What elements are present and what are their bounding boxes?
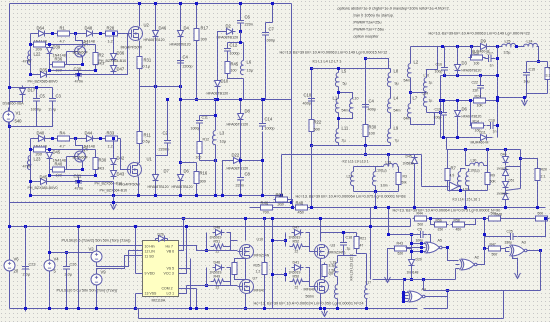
node cell2 i [94, 174, 97, 177]
wire R59 right [503, 218, 534, 220]
capacitor C16r [487, 122, 498, 129]
wire L30 left [466, 150, 470, 166]
wire x388 drop [388, 155, 390, 167]
wire V4 top [49, 219, 51, 257]
wire A3 in1 [506, 247, 510, 249]
svg-text:D47: D47 [293, 226, 300, 230]
svg-text:V4: V4 [54, 257, 60, 262]
node rail75 b [456, 74, 459, 77]
wire C17 right [496, 58, 498, 60]
svg-text:7µ: 7µ [342, 139, 346, 143]
resistor R43 [393, 246, 409, 251]
svg-text:100: 100 [474, 62, 480, 66]
wire R31 down [139, 69, 141, 87]
node rail86 [154, 85, 157, 88]
svg-text:C17: C17 [487, 52, 493, 56]
wire out top rail2 [490, 46, 503, 48]
wire D2 left drop [218, 32, 224, 78]
wire C25 left [485, 236, 507, 238]
wire ic top link [155, 239, 157, 241]
node C23 bus [24, 307, 27, 310]
svg-text:300: 300 [200, 180, 206, 184]
resistor R9 [485, 171, 490, 187]
node cell2 e [81, 168, 84, 171]
node cell1 f [48, 43, 51, 46]
wire A3 frame bottom [504, 290, 541, 292]
wire COM drop [196, 289, 198, 309]
wire D22 right [243, 132, 263, 161]
svg-text:0.5µ: 0.5µ [143, 140, 151, 144]
svg-text:VCC 3: VCC 3 [164, 272, 174, 276]
capacitor C8 [237, 174, 244, 185]
svg-text:R19: R19 [473, 52, 479, 56]
wire x404 to A4 [403, 280, 405, 302]
wire x272b [272, 219, 274, 309]
node A4 j3 [402, 297, 405, 300]
wire y154 [282, 154, 422, 156]
svg-text:R21: R21 [360, 237, 367, 241]
wire cell1 bot3 [114, 34, 128, 75]
svg-text:R46: R46 [261, 201, 269, 206]
capacitor C21 [75, 177, 82, 188]
svg-text:D45: D45 [53, 150, 61, 155]
node hb2 g2 [284, 273, 287, 276]
svg-text:D40: D40 [37, 131, 45, 136]
svg-text:R7: R7 [451, 166, 457, 171]
wire buf feed [422, 186, 449, 188]
wire L10 taps [339, 93, 353, 99]
wire K2 drop [375, 192, 377, 208]
resistor R31 [137, 55, 142, 71]
node hb1 g1 [205, 249, 208, 252]
svg-text:450: 450 [298, 211, 304, 215]
svg-text:R30: R30 [99, 158, 107, 163]
svg-text:D43: D43 [117, 172, 125, 177]
wire C18 bot [343, 249, 345, 256]
wire L2s-L7s [410, 78, 412, 104]
svg-text:11 SD: 11 SD [145, 255, 155, 259]
wire input top [10, 87, 53, 89]
wire L1-L11 link [338, 113, 340, 129]
diode D46z [38, 179, 50, 185]
node col155 top [154, 2, 157, 5]
resistor R25 [262, 261, 267, 277]
wire R19 right [485, 57, 486, 59]
svg-text:300: 300 [278, 203, 284, 207]
svg-text:VB 6: VB 6 [167, 250, 175, 254]
node R20 bus [536, 206, 539, 209]
node cell2 f [48, 148, 51, 151]
node bus202 end [290, 201, 293, 204]
svg-text:300: 300 [201, 38, 207, 42]
svg-text:D9: D9 [481, 39, 487, 44]
wire K4 mid [338, 255, 357, 257]
svg-text:R3: R3 [403, 175, 407, 179]
svg-text:C12: C12 [230, 43, 238, 48]
wire bus return [10, 202, 292, 204]
svg-text:R51: R51 [214, 240, 221, 244]
wire K2 bot [354, 191, 399, 193]
wire C16r right [497, 125, 499, 127]
svg-text:1µ: 1µ [347, 247, 351, 251]
wire A4 in2 [404, 295, 409, 297]
node com [195, 307, 198, 310]
svg-text:U7: U7 [253, 277, 258, 281]
svg-text:D11: D11 [480, 131, 486, 135]
wire x311 down [311, 146, 313, 208]
svg-text:R58: R58 [454, 219, 460, 223]
wire A4 in4 [404, 301, 409, 303]
svg-text:1N4148: 1N4148 [407, 271, 419, 275]
node x370 a [369, 225, 372, 228]
diode D48 [84, 31, 96, 37]
node x411 b [410, 233, 413, 236]
wire C19 bot [443, 119, 445, 138]
svg-text:R17: R17 [201, 26, 209, 31]
svg-text:C3: C3 [56, 94, 62, 99]
svg-text:500: 500 [492, 253, 498, 257]
wire y252 [50, 252, 97, 254]
node x447 [446, 289, 449, 292]
node col196 top [195, 2, 198, 5]
wire pin Hin [136, 245, 143, 247]
node k3 d [504, 148, 507, 151]
node gnd tap [112, 201, 115, 204]
wire D45r v [414, 167, 416, 208]
node x78 c [77, 307, 80, 310]
wire cell1 left [30, 34, 32, 75]
node out gnd [523, 96, 526, 99]
inductor L29 [384, 163, 398, 166]
node R25 bot [263, 307, 266, 310]
node gnd hb2 [323, 307, 326, 310]
svg-text:L23: L23 [34, 157, 42, 162]
wire cell1 top rail [31, 33, 128, 35]
node snub [239, 41, 242, 44]
wire ic top link2 [167, 239, 169, 241]
node D8 top [239, 98, 242, 101]
node VDD bus [134, 225, 137, 228]
wire rail100b [488, 100, 498, 102]
svg-text:470n: 470n [75, 80, 83, 84]
node C6 top [239, 2, 242, 5]
wire D39 to R36 [50, 57, 51, 65]
svg-text:2.1: 2.1 [541, 175, 546, 179]
wire A2 out [479, 249, 485, 265]
wire R7 bot [447, 181, 449, 191]
svg-text:HFA06TB120: HFA06TB120 [227, 123, 249, 127]
diode D40s [503, 154, 509, 166]
wire hb2 gates feed2 [273, 274, 286, 276]
svg-text:R30: R30 [369, 125, 377, 130]
svg-text:100p: 100p [434, 116, 442, 120]
wire pin SD [136, 255, 143, 257]
node D45r bus [413, 206, 416, 209]
svg-text:R14: R14 [473, 120, 479, 124]
svg-text:1µ: 1µ [429, 81, 433, 85]
svg-text:R1: R1 [60, 26, 66, 31]
diode D47z [111, 63, 117, 75]
svg-text:IRF640: IRF640 [254, 289, 265, 293]
svg-text:L1: L1 [333, 96, 338, 101]
wire R16 branch [181, 162, 197, 164]
svg-text:L2: L2 [414, 60, 419, 65]
node L tap [337, 91, 340, 94]
svg-text:L7: L7 [413, 96, 418, 101]
capacitor C3 [49, 95, 56, 106]
wire Q4 emitter [82, 59, 84, 65]
wire R21 ext [357, 250, 367, 254]
inductor L10s [423, 78, 426, 92]
wire V4 bot [49, 275, 51, 309]
wire C7 stub [266, 22, 273, 24]
node hb1 g2 [205, 284, 208, 287]
node K3 rail190 a [459, 189, 462, 192]
node hb1 top [244, 217, 247, 220]
wire L30 right [484, 165, 488, 167]
wire out top rail [411, 46, 478, 48]
wire A3 frame drop [503, 291, 505, 319]
wire R9 top [487, 150, 489, 173]
svg-text:54m: 54m [404, 79, 411, 83]
wire y112 [427, 112, 441, 114]
node bus307 b [205, 307, 208, 310]
wire C26 top [66, 253, 68, 263]
node rail99 d [195, 98, 198, 101]
svg-text:K1 L1 L4 L2 L7 1: K1 L1 L4 L2 L7 1 [313, 60, 342, 64]
node col180 bus [179, 194, 182, 197]
node L tap2 [337, 117, 340, 120]
svg-text:U10: U10 [257, 238, 264, 242]
node x484 a [483, 233, 486, 236]
node x78 a [77, 225, 80, 228]
wire VDD drop [135, 227, 137, 274]
svg-text:.PWM# Tzn=7.56u: .PWM# Tzn=7.56u [353, 28, 384, 32]
svg-text:C23: C23 [29, 263, 36, 267]
svg-text:C7: C7 [269, 27, 275, 32]
wire L6 top [243, 43, 245, 61]
wire R21k top [356, 233, 358, 237]
diode D35 [38, 72, 50, 78]
svg-text:100p: 100p [416, 239, 424, 243]
transistor U10 [238, 245, 254, 259]
node L17 bus [365, 307, 368, 310]
wire zener mid [113, 62, 115, 64]
svg-text:.tran 0 1050u 0u startup.: .tran 0 1050u 0u startup. [353, 14, 394, 18]
wire C12-R45 [227, 55, 229, 62]
wire C22 top [480, 76, 482, 82]
svg-text:L8: L8 [394, 69, 399, 74]
wire pin VB [179, 219, 184, 251]
svg-text:C8: C8 [245, 172, 251, 177]
node U1 bus [137, 194, 140, 197]
node V4 bus [48, 307, 51, 310]
svg-text:22: 22 [295, 250, 299, 254]
wire Q4 base [67, 51, 74, 53]
wire D6r top [457, 101, 459, 108]
diode D11 [478, 135, 490, 141]
node V1 bottom [8, 125, 11, 128]
svg-text:20: 20 [14, 269, 19, 274]
resistor R22 [309, 118, 314, 134]
wire V9 bot [96, 289, 98, 309]
node D2 right [239, 30, 242, 33]
inductor L4 [387, 99, 390, 113]
svg-text:D8: D8 [245, 109, 251, 114]
wire top rail drop at x291 [291, 4, 293, 203]
node A5 out [446, 246, 449, 249]
svg-text:U3: U3 [331, 244, 336, 248]
wire R56 jog [431, 219, 433, 225]
wire L19-L23 [337, 277, 339, 285]
node y252 a [48, 251, 51, 254]
wire A2 in3 [456, 268, 460, 270]
wire R20 top [521, 159, 538, 167]
svg-text:C4: C4 [369, 99, 375, 104]
wire pin VSS [136, 293, 143, 295]
svg-text:2.0µ: 2.0µ [23, 273, 31, 277]
wire bottom return drop [138, 309, 140, 319]
wire hb1 top [50, 218, 411, 220]
capacitor C6 [237, 17, 244, 28]
wire A3 frame right [540, 251, 542, 291]
wire R25a bot [235, 275, 246, 280]
wire L14s bot [426, 107, 428, 113]
wire L15 top [461, 169, 466, 172]
svg-text:HFA06TB120: HFA06TB120 [462, 115, 482, 119]
capacitor C7 [262, 29, 269, 40]
resistor R51 [211, 244, 227, 249]
wire D10 bot [217, 90, 219, 100]
wire C14c v [262, 100, 264, 120]
resistor R2 [93, 51, 98, 67]
source V2 [91, 248, 102, 266]
transistor Q6 [74, 150, 86, 164]
node input left [8, 86, 11, 89]
inductor L8 [387, 73, 390, 87]
wire C5 bottom [10, 105, 37, 127]
svg-text:D44: D44 [85, 131, 93, 136]
svg-text:D17: D17 [28, 88, 36, 93]
node K4 top [342, 231, 345, 234]
svg-text:D29: D29 [416, 258, 422, 262]
svg-text:IRG4PF50W: IRG4PF50W [119, 183, 141, 187]
svg-text:470n: 470n [23, 60, 31, 64]
diode D36 [111, 51, 117, 63]
wire C18 top [343, 233, 345, 239]
wire out top rail3 [515, 46, 525, 48]
svg-text:1000p: 1000p [230, 52, 240, 56]
svg-text:L3: L3 [220, 131, 225, 136]
wire A4 in3 [404, 298, 409, 300]
svg-text:R28: R28 [107, 26, 115, 31]
svg-text:PH_BZX564-B10: PH_BZX564-B10 [99, 59, 127, 63]
capacitor C19 [440, 109, 447, 120]
svg-text:1000p: 1000p [265, 127, 275, 131]
wire y234 [389, 234, 418, 236]
transistor U2 [127, 27, 143, 41]
wire bus mid right [250, 207, 546, 209]
svg-text:C10: C10 [436, 63, 442, 67]
wire pin Lin [136, 250, 143, 252]
svg-text:C26: C26 [70, 263, 77, 267]
wire K4 top [321, 232, 357, 234]
node x365 y154 [364, 153, 367, 156]
wire pin LO [179, 286, 187, 294]
svg-text:9µ: 9µ [395, 82, 399, 86]
wire pin VDD [136, 273, 143, 275]
wire L7s bot [411, 113, 441, 125]
svg-text:C22: C22 [472, 81, 478, 85]
resistor R24 [472, 98, 488, 103]
svg-text:PH_BZX585-B0V0: PH_BZX585-B0V0 [28, 80, 58, 84]
wire x440 [440, 76, 442, 138]
node col196 bus [195, 194, 198, 197]
svg-text:R33: R33 [107, 131, 115, 136]
wire snub loop top [228, 32, 241, 43]
wire col180 low [180, 100, 182, 196]
resistor R25a [232, 261, 237, 277]
node x497 c [496, 99, 499, 102]
wire col155 [155, 4, 157, 87]
inductor L5 [335, 73, 338, 87]
wire R14 feed [470, 101, 472, 126]
wire cell1 bot2 [31, 74, 114, 76]
wire hb2 mid [320, 259, 322, 280]
wire D3 top [457, 47, 459, 62]
wire L23 bot [337, 299, 339, 309]
source V9 [91, 271, 102, 289]
svg-text:.options abstol=1e-9 chgtol=1e: .options abstol=1e-9 chgtol=1e-9 maxstep… [337, 7, 449, 11]
wire bus308 [10, 308, 136, 310]
svg-text:22n: 22n [473, 89, 479, 93]
svg-text:D26: D26 [158, 233, 164, 237]
wire cell2 gate link [121, 139, 126, 170]
diode D40 [36, 136, 48, 142]
wire C7 top [265, 23, 267, 29]
svg-text:L27: L27 [347, 175, 353, 179]
node rail86 b [179, 85, 182, 88]
diode D45d [47, 150, 53, 162]
resistor R21k [354, 235, 359, 251]
svg-text:D64: D64 [37, 26, 45, 31]
svg-text:D47: D47 [117, 67, 125, 72]
node K1 tl [310, 67, 313, 70]
svg-text:D3: D3 [462, 61, 468, 66]
svg-text:R2: R2 [99, 53, 105, 58]
node K1 ct [364, 57, 367, 60]
node k3 b [464, 148, 467, 151]
node R14 feed [469, 99, 472, 102]
diode D45r [412, 155, 418, 167]
wire A3 gnd stem [513, 257, 518, 272]
svg-text:D6: D6 [184, 169, 190, 174]
resistor R59 [487, 216, 503, 221]
inductor L14s [423, 93, 426, 107]
svg-text:3.5µ: 3.5µ [504, 51, 511, 55]
svg-text:C25: C25 [507, 230, 513, 234]
node x497 e [496, 96, 499, 99]
wire dstring top [505, 150, 507, 154]
resistor R7 [445, 167, 450, 183]
node U2 drain top [138, 2, 141, 5]
node A4 j4 [402, 300, 405, 303]
wire sec ct link [411, 92, 427, 94]
node cell2 left bus [29, 194, 32, 197]
inductor L11 [335, 129, 338, 143]
svg-text:1µ: 1µ [429, 99, 433, 103]
node K2 b [374, 206, 377, 209]
